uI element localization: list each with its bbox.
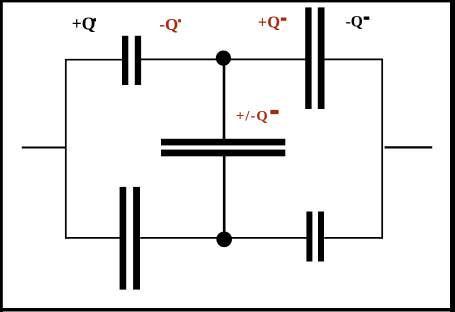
svg-text:+Q: +Q xyxy=(258,13,280,32)
capacitor top-right xyxy=(305,7,324,109)
wire right output lead xyxy=(385,146,433,148)
wire bottom right segment xyxy=(324,237,383,239)
node top junction xyxy=(216,51,231,66)
label +Q'' xyxy=(258,13,287,32)
wire left bus xyxy=(65,59,67,239)
svg-text:+/-Q: +/-Q xyxy=(236,109,269,125)
svg-text:-Q: -Q xyxy=(159,15,178,34)
wire left input lead xyxy=(22,147,66,149)
label -Q' xyxy=(159,15,181,34)
capacitor top-left xyxy=(122,36,141,85)
label +/-Q''' xyxy=(236,109,279,125)
wire middle bus lower xyxy=(223,156,226,240)
wire top middle segment xyxy=(141,58,306,60)
svg-text:+Q: +Q xyxy=(72,13,96,33)
wire bottom left segment xyxy=(65,237,120,239)
label +Q' xyxy=(72,13,96,33)
capacitor bottom-left xyxy=(120,187,140,290)
wire middle bus upper xyxy=(223,58,226,140)
wire bottom middle segment xyxy=(140,237,306,239)
label -Q'' xyxy=(346,14,370,31)
capacitor bottom-right xyxy=(306,212,324,262)
wire top left segment xyxy=(65,59,122,61)
wire top right segment xyxy=(324,58,383,60)
svg-text:-Q: -Q xyxy=(346,14,363,31)
wire right bus xyxy=(381,59,383,239)
capacitor middle xyxy=(161,139,285,157)
node bottom junction xyxy=(216,232,232,248)
